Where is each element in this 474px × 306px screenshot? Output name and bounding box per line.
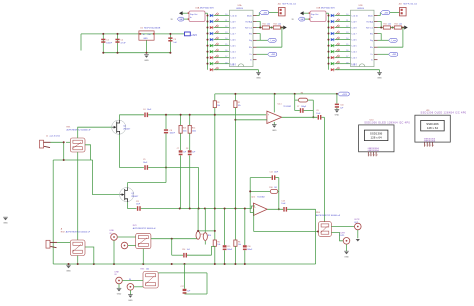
wire to gnd A (258, 70, 260, 73)
wire after C9 (321, 116, 324, 118)
IC U2B LM3914 (351, 10, 375, 66)
svg-text:GND: GND (256, 78, 261, 80)
LED D6B (331, 44, 334, 47)
svg-text:C17: C17 (181, 286, 184, 288)
net label +3V3 vp A (268, 52, 277, 56)
node bottom rail (234, 263, 236, 265)
svg-text:10nF: 10nF (274, 172, 279, 174)
wire pot2 wiper (85, 247, 94, 264)
junction (117, 52, 119, 54)
svg-text:Rhi: Rhi (370, 33, 374, 35)
svg-text:RV5: RV5 (141, 268, 145, 270)
svg-text:Led 3: Led 3 (352, 57, 358, 59)
wire C15 top (224, 209, 226, 246)
wire to J5 tip (331, 226, 354, 228)
wire pot3 out (151, 238, 198, 240)
pin stubs U2A (253, 16, 257, 60)
svg-text:2N5457: 2N5457 (123, 129, 131, 131)
svg-text:3V: 3V (171, 19, 174, 21)
wire link (198, 230, 215, 232)
capacitor C5 10nF (144, 165, 148, 170)
junction (169, 52, 171, 54)
node led3A (207, 27, 209, 29)
LED D8A (210, 56, 213, 59)
potentiometer RV4 (319, 222, 332, 237)
wire gnd rail (103, 52, 170, 54)
net label +3V3 mode A (260, 11, 269, 15)
label +3V3 framed (185, 32, 191, 36)
svg-text:R13: R13 (183, 128, 186, 130)
wire to arrow A (280, 27, 283, 29)
wire rlo drop A (281, 28, 283, 48)
potentiometer RV1 (70, 138, 85, 152)
svg-text:RV4: RV4 (316, 212, 321, 214)
resistor R12A 1.2k (273, 26, 280, 29)
node rail2 (224, 208, 226, 210)
wire mode B (378, 15, 381, 17)
wire led7B to pin (335, 51, 351, 53)
wire ov2 bottom (204, 241, 206, 245)
op-amp U2.1 TLV2462 (267, 111, 282, 123)
wire C5 out (148, 167, 199, 169)
wire Q1 source (120, 135, 144, 168)
LED D5A (210, 38, 213, 41)
wire C7 bottom (180, 155, 182, 208)
node led3B (328, 27, 330, 29)
junction (169, 33, 171, 35)
wire refadj B (378, 22, 382, 28)
net label I_sen A (268, 38, 277, 42)
LED D7A (210, 50, 213, 53)
wire led9A to pin (214, 63, 230, 65)
wire bottom rail B (335, 69, 380, 71)
LED D3A (210, 26, 213, 29)
node rail (294, 93, 296, 95)
wire bottom rail (53, 263, 315, 265)
resistor R1 10k (213, 101, 216, 108)
ground bottom (66, 265, 71, 272)
resistor R5 10k (213, 240, 216, 246)
wire fb2 right (278, 178, 280, 210)
svg-text:4: 4 (433, 145, 434, 147)
svg-text:C14: C14 (182, 249, 185, 251)
svg-text:100nF: 100nF (247, 249, 253, 251)
wire Q2 drain row (128, 182, 166, 184)
potentiometer RV2 (70, 240, 85, 256)
wire c5 gnd (118, 284, 120, 288)
ground J4 tip (117, 288, 122, 295)
capacitor C10 1uF (335, 104, 339, 108)
pins U11 (424, 137, 436, 146)
svg-text:Rlo: Rlo (249, 47, 253, 49)
svg-text:R11: R11 (384, 24, 387, 26)
wire jack2 to pot2 (57, 241, 70, 243)
wire to -in2 (250, 212, 253, 214)
node drain load (165, 167, 167, 169)
svg-text:Rlo: Rlo (370, 47, 374, 49)
node link1 (197, 230, 199, 232)
svg-text:14: 14 (225, 38, 227, 40)
svg-text:C8: C8 (186, 148, 188, 150)
svg-text:+: + (268, 114, 270, 117)
resistor R10 1M (270, 189, 278, 193)
svg-text:Sup Out: Sup Out (190, 13, 198, 16)
svg-text:U2.2: U2.2 (251, 196, 255, 198)
wire +BATT to +3V3 rail (81, 33, 185, 35)
svg-text:10uF: 10uF (281, 203, 286, 205)
svg-text:RV3: RV3 (133, 225, 137, 227)
svg-text:ALPS RK09712 100000 uF: ALPS RK09712 100000 uF (133, 227, 157, 230)
svg-text:Led 10: Led 10 (231, 15, 238, 17)
wire sig B (378, 39, 389, 41)
svg-text:R16: R16 (208, 235, 211, 237)
connector module U1B (309, 11, 326, 22)
svg-text:3: 3 (430, 145, 431, 147)
transistor Q1 (112, 120, 131, 135)
wire led3A to pin (214, 27, 230, 29)
connector J3 audio jack (46, 240, 57, 248)
svg-text:SDA: SDA (375, 147, 379, 150)
node refadj A (259, 27, 261, 29)
wire led5B to pin (335, 39, 351, 41)
wire input stub (80, 34, 82, 51)
pin names U2A left (231, 15, 238, 66)
wire mode up B (379, 13, 381, 16)
LED D10B (331, 68, 334, 71)
LED D1A (210, 14, 213, 17)
node bottom rail (93, 263, 95, 265)
node led6B (328, 45, 330, 47)
op-amp U2.2 TLV2462 (253, 203, 267, 215)
node led8B (328, 57, 330, 59)
svg-text:U2A: U2A (238, 4, 242, 7)
off-page arrow ref A (283, 26, 287, 30)
wire led9B to pin (335, 63, 351, 65)
svg-text:LM3914: LM3914 (357, 8, 364, 10)
label R10A (215, 67, 219, 70)
LED D1B (331, 14, 334, 17)
wire to RV4 in (253, 209, 255, 232)
svg-text:V+: V+ (370, 54, 373, 56)
wire R6 bottom (234, 246, 236, 264)
resistor R15 (196, 231, 200, 239)
wire led1B to pin (335, 15, 351, 17)
wire C2 leg (117, 34, 119, 53)
ground J6 (344, 251, 349, 258)
label R4A (215, 31, 219, 34)
net label +3V3 mode B (381, 11, 390, 15)
svg-text:C13: C13 (281, 200, 284, 202)
svg-text:GND: GND (272, 130, 277, 132)
pin stubs U2B (374, 16, 378, 60)
wire rlo drop B (402, 28, 404, 48)
svg-text:100nF: 100nF (106, 42, 112, 44)
capacitor C15 100nF (223, 245, 227, 250)
svg-text:OUTL: OUTL (340, 235, 345, 237)
svg-text:Led 3: Led 3 (231, 57, 237, 59)
svg-text:C4: C4 (143, 109, 145, 111)
node led2B (328, 21, 330, 23)
svg-text:2: 2 (428, 145, 429, 147)
potentiometer RV3 (136, 233, 151, 248)
svg-text:MCP1640 3V3: MCP1640 3V3 (321, 8, 335, 10)
wire fb right (312, 100, 314, 117)
svg-text:Led 4: Led 4 (231, 51, 237, 53)
wire fb left (294, 94, 296, 111)
wire op-amp V+ (273, 94, 275, 113)
transistor Q2 (120, 187, 139, 202)
label R3A (215, 25, 219, 28)
connector J4 tip (116, 277, 123, 284)
node bottom rail (171, 263, 173, 265)
junction (102, 33, 104, 35)
wire fb2 mid2 (278, 190, 279, 192)
ground C10 (335, 110, 340, 117)
svg-text:C9: C9 (316, 110, 318, 112)
svg-text:C16: C16 (247, 246, 250, 248)
wire v+ B (378, 53, 389, 55)
svg-text:128 x 64: 128 x 64 (427, 126, 438, 130)
wire vin (304, 12, 309, 14)
label R7B (336, 49, 340, 52)
svg-text:11: 11 (346, 20, 348, 22)
svg-text:R3: R3 (301, 92, 303, 94)
svg-text:GND: GND (377, 78, 382, 80)
wire rlo B (378, 46, 403, 48)
IC U2A LM3914 (230, 10, 254, 66)
node link2 (214, 230, 216, 232)
capacitor C6 100nF (164, 129, 168, 133)
label R2A (215, 19, 219, 22)
wire led2A to pin (214, 21, 230, 23)
wire C17 join (184, 293, 186, 295)
bus wire (328, 13, 330, 69)
wire rhi A (257, 34, 261, 41)
wire fb2 left (249, 178, 251, 213)
wire out to bus (326, 12, 329, 14)
node C6 (165, 114, 167, 116)
svg-text:1.2k: 1.2k (399, 24, 402, 26)
svg-text:GND: GND (144, 60, 149, 62)
wire to R5 (211, 247, 214, 256)
svg-text:J1B: J1B (399, 3, 403, 5)
capacitor C9 10uF (318, 115, 322, 120)
svg-text:In: In (311, 17, 313, 19)
node led4A (207, 33, 209, 35)
node bias (63, 159, 65, 161)
svg-text:Rhi: Rhi (249, 33, 253, 35)
svg-text:18: 18 (225, 62, 227, 64)
node led9B (328, 63, 330, 65)
svg-text:Q2: Q2 (131, 193, 135, 195)
svg-text:C3: C3 (173, 39, 176, 41)
wire C6 top (165, 115, 167, 130)
svg-text:R5: R5 (217, 241, 219, 243)
LED D10A (210, 68, 213, 71)
svg-text:10k: 10k (146, 268, 149, 270)
svg-text:LM3914: LM3914 (236, 8, 243, 10)
svg-text:18: 18 (346, 62, 348, 64)
wire ov2 top (204, 209, 206, 233)
svg-text:ALPS RK09712 100000 uF: ALPS RK09712 100000 uF (67, 129, 92, 132)
svg-text:MCP1640 3V3: MCP1640 3V3 (200, 8, 214, 10)
svg-text:1.2k: 1.2k (267, 24, 270, 26)
wire drop (171, 239, 173, 256)
svg-text:Led 5: Led 5 (231, 45, 237, 47)
wire fb r2 (308, 99, 314, 101)
wire R1 top (214, 94, 216, 101)
svg-text:R6: R6 (238, 241, 240, 243)
LED D4A (210, 32, 213, 35)
node out2 (278, 208, 280, 210)
svg-text:1uF: 1uF (187, 249, 191, 251)
wire v+ A (257, 53, 268, 55)
svg-text:Led 6: Led 6 (352, 39, 358, 41)
svg-text:C7: C7 (297, 106, 299, 108)
wire U1 gnd (146, 40, 148, 53)
svg-text:10k: 10k (217, 244, 220, 246)
node rlo top B (402, 27, 404, 29)
node rail2 (234, 208, 236, 210)
pin names U2A right (245, 15, 253, 61)
svg-text:13: 13 (346, 32, 348, 34)
svg-text:C1: C1 (106, 40, 109, 42)
svg-text:10k: 10k (238, 105, 241, 107)
wire pot1 wiper (85, 145, 91, 160)
wire to gnd B (379, 70, 381, 73)
node leg1 (189, 114, 191, 116)
svg-text:100pF: 100pF (301, 106, 307, 108)
node rail2 (189, 208, 191, 210)
LED D2B (331, 20, 334, 23)
node pot3 out (171, 238, 173, 240)
svg-text:ALPS RK09712 100000 uF: ALPS RK09712 100000 uF (316, 214, 341, 217)
svg-text:MCP F 2.54, 1x2: MCP F 2.54, 1x2 (283, 3, 296, 5)
svg-text:V+: V+ (249, 54, 252, 56)
wire led5A to pin (214, 39, 230, 41)
wire right loop (315, 209, 317, 264)
wire to J6 tip (331, 233, 343, 241)
off-page arrow ref B (404, 26, 408, 30)
svg-text:R12: R12 (274, 24, 277, 26)
svg-text:R1: R1 (217, 102, 219, 104)
svg-text:17: 17 (346, 56, 348, 58)
capacitor C1 (101, 39, 105, 43)
wire RV4 in (254, 231, 319, 233)
svg-text:1uF: 1uF (173, 42, 177, 44)
label R6A (215, 43, 219, 46)
display module U10 SSD1306 (359, 125, 394, 152)
LED D3B (331, 26, 334, 29)
resistor R16 (203, 233, 207, 241)
wire feedback to - (235, 119, 267, 121)
wire rdiv B (390, 27, 394, 29)
svg-text:16: 16 (225, 50, 227, 52)
ground block B (377, 73, 382, 80)
node led7A (207, 51, 209, 53)
wire fb c2 (304, 110, 314, 112)
node bottom rail (214, 263, 216, 265)
wire out to loop (287, 208, 316, 210)
bus wire (207, 13, 209, 69)
svg-text:Q1: Q1 (123, 126, 127, 128)
wire op2 out (267, 208, 283, 210)
wire left rail (52, 160, 54, 264)
wire bat (305, 18, 309, 20)
node rail2 (198, 208, 200, 210)
wire +3V3 analog rail (215, 93, 338, 95)
capacitor C4 10nF (144, 113, 148, 118)
node led9A (207, 63, 209, 65)
wire signal to op-amp + (148, 114, 266, 116)
wire c2 to pot3 (128, 245, 136, 247)
LED D5B (331, 38, 334, 41)
wire pot2 bottom (77, 256, 79, 265)
svg-text:10nF: 10nF (147, 109, 152, 111)
node led6A (207, 45, 209, 47)
svg-text:100nF: 100nF (170, 133, 176, 135)
svg-text:1.2k: 1.2k (278, 24, 281, 26)
label R6B (336, 43, 340, 46)
svg-text:3: 3 (374, 155, 375, 157)
svg-text:100k: 100k (192, 130, 196, 132)
svg-text:Led 7: Led 7 (231, 33, 237, 35)
net label +3V3 rail (338, 92, 350, 96)
node bottom rail (142, 263, 144, 265)
wire C1 leg (102, 34, 104, 53)
label R4B (336, 31, 340, 34)
wire C8 top (189, 133, 191, 150)
svg-text:C5: C5 (143, 159, 145, 161)
svg-text:Sig: Sig (249, 40, 252, 42)
node rail (336, 93, 338, 95)
wire refout B (378, 27, 384, 29)
pin names U2B right (366, 15, 374, 61)
svg-text:15: 15 (225, 44, 227, 46)
node fb2 (249, 190, 251, 192)
svg-text:10: 10 (225, 14, 227, 16)
svg-text:100k: 100k (183, 130, 187, 132)
node led5A (207, 39, 209, 41)
net label +3V3 vp B (389, 52, 398, 56)
connector module U1A (188, 11, 205, 22)
label R7A (215, 49, 219, 52)
junction (146, 52, 148, 54)
svg-text:10nF: 10nF (143, 162, 148, 164)
wire rdiv A (269, 27, 273, 29)
label R8A (215, 55, 219, 58)
label R2B (336, 19, 340, 22)
wire C16 bottom (244, 250, 246, 264)
svg-text:Out: Out (148, 33, 152, 36)
svg-text:+3V3: +3V3 (191, 34, 197, 37)
capacitor C11 10nF (137, 206, 141, 211)
connector J6 OUT L (343, 238, 350, 245)
wire bias row (53, 159, 92, 161)
svg-text:GND: GND (128, 300, 133, 302)
wire to C14 (172, 254, 183, 256)
svg-text:Mode: Mode (368, 15, 374, 17)
node jack tip (63, 141, 65, 143)
capacitor C12 10nF (272, 175, 276, 180)
svg-text:Mode: Mode (247, 15, 253, 17)
node led4B (328, 33, 330, 35)
resistor R2 10k (234, 101, 237, 108)
wire led6B to pin (335, 45, 351, 47)
connector J5 OUT R (355, 223, 362, 230)
svg-text:C7: C7 (177, 148, 179, 150)
LED D9B (331, 62, 334, 65)
